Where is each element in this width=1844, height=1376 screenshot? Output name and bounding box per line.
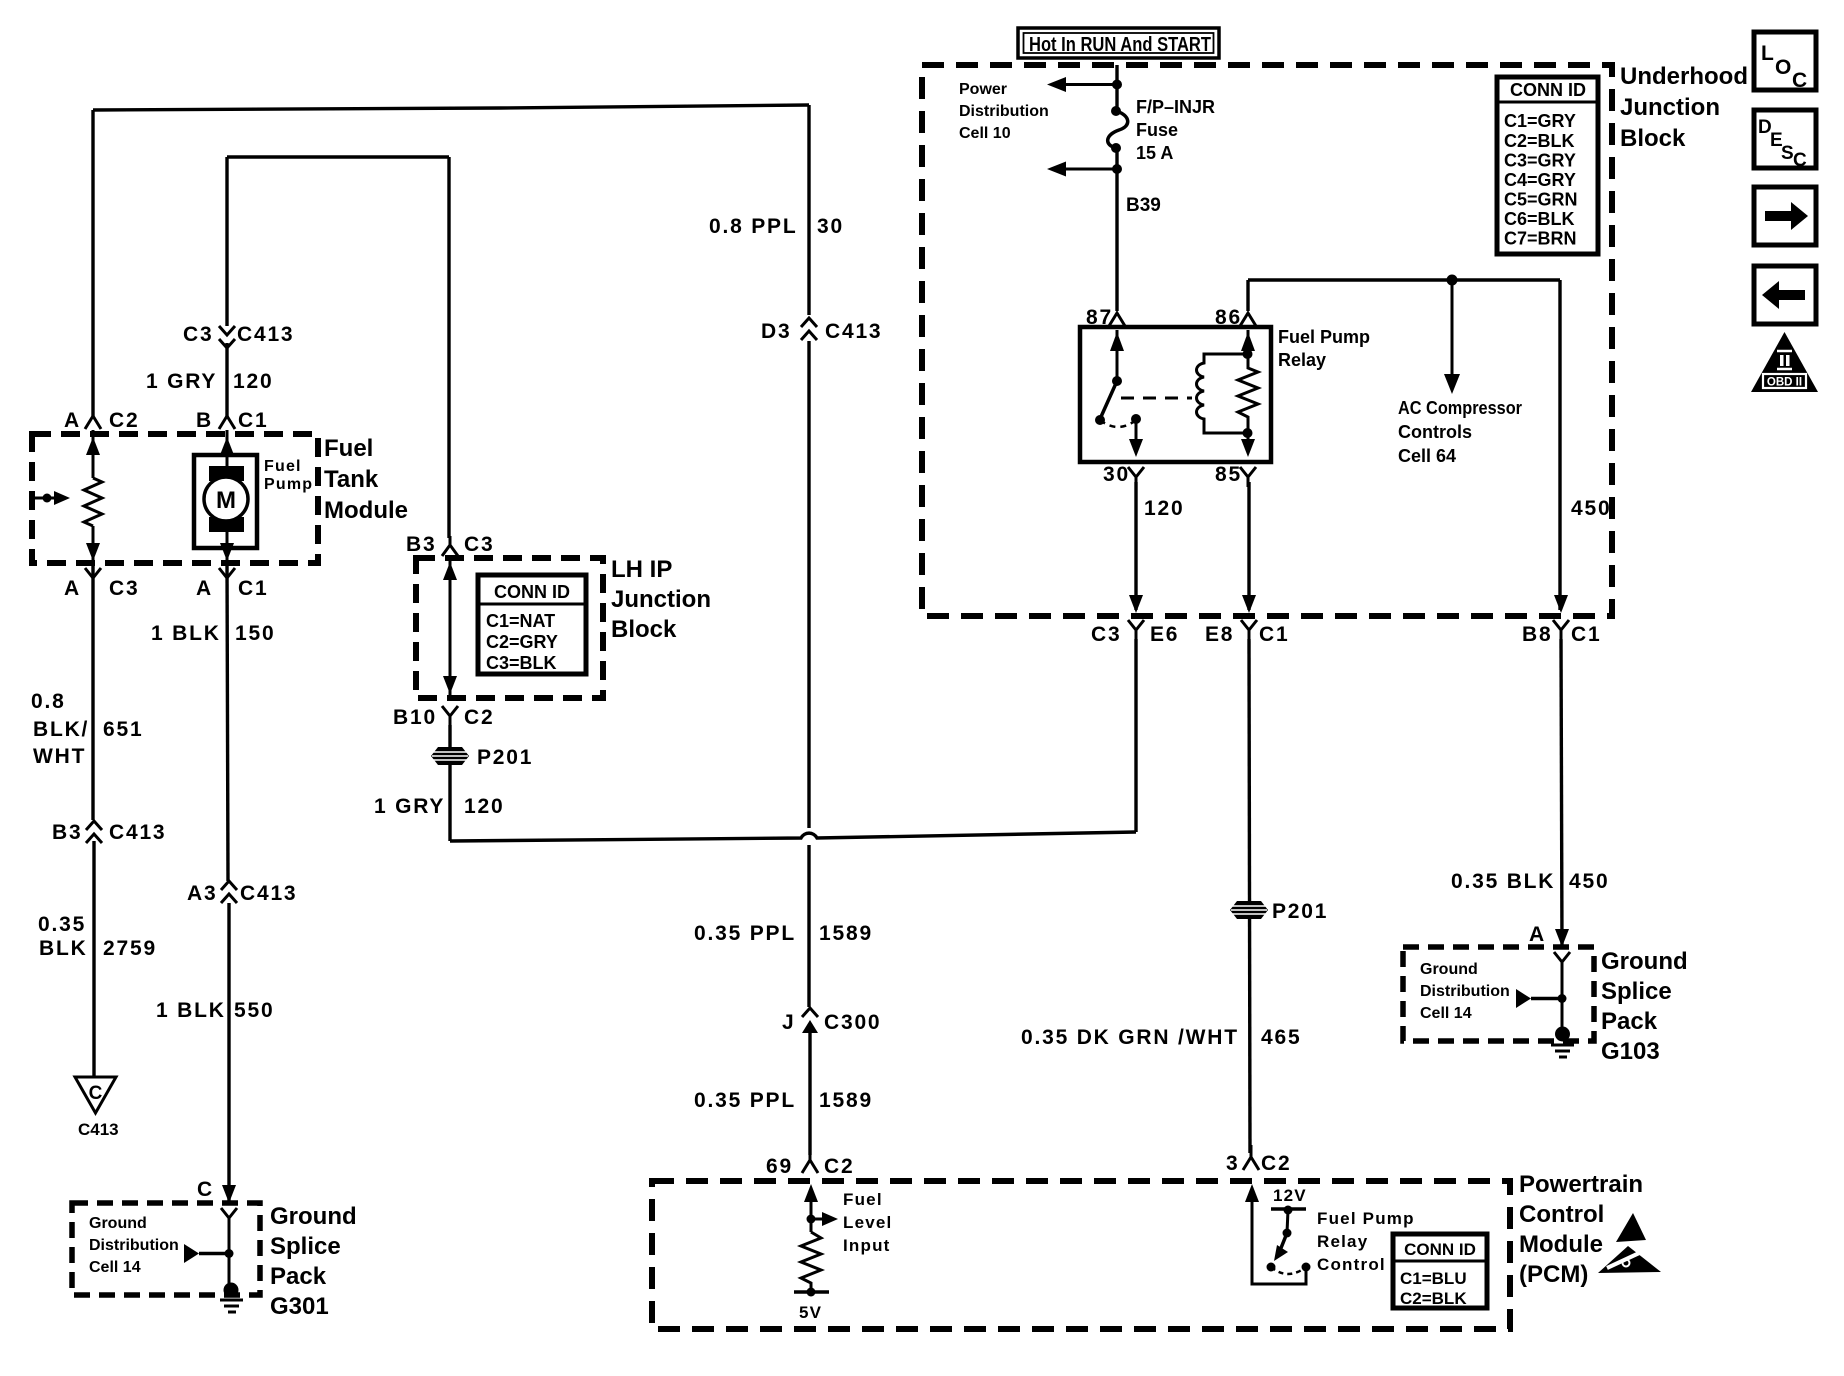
power distribution tap arrow (upper): [1047, 77, 1122, 92]
svg-text:30: 30: [1103, 463, 1130, 486]
pin A / connector C3 (module bottom left): [64, 568, 139, 600]
svg-text:C: C: [1792, 69, 1809, 92]
label: Ground Distribution Cell 14 (G301): [89, 1215, 179, 1276]
svg-text:Cell 14: Cell 14: [1420, 1005, 1472, 1022]
ESD sensitive device symbol: [1598, 1213, 1661, 1273]
in-line connector J C300 (PPL wire): [782, 1008, 881, 1034]
in-line connector C3 C413 (GRY wire): [183, 323, 294, 348]
fuse F/P-INJR 15 A: [1108, 106, 1128, 153]
pin B10 / connector C2 (LH IP bottom): [393, 706, 494, 729]
wire: 450 vertical x=1561 B8/C1 down to G103 pin A: [1561, 639, 1562, 947]
svg-text:A: A: [1529, 923, 1546, 946]
wire: 0.35 PPL vertical x=809 J/C300 to PCM pin 69: [808, 1032, 811, 1155]
svg-text:1 GRY: 1 GRY: [146, 370, 217, 393]
relay coil return leg: [1241, 428, 1255, 457]
wire: 1 GRY vertical x=450 B10/C2 through P201 down to corner: [448, 725, 451, 841]
svg-text:C: C: [1793, 150, 1807, 171]
svg-text:B: B: [196, 409, 213, 432]
PCM driver switch arm: [1274, 1210, 1292, 1261]
svg-text:C413: C413: [825, 320, 882, 343]
connector chevron at G103 edge: [1554, 952, 1570, 972]
fuel level sender variable resistor: [84, 478, 102, 526]
svg-text:Level: Level: [843, 1213, 892, 1232]
wire: 0.8 PPL vertical x=809 to D3/C413: [807, 105, 810, 315]
svg-text:Block: Block: [611, 616, 677, 643]
svg-text:2759: 2759: [103, 937, 157, 960]
wire: sender resistor to module bottom edge: [92, 526, 95, 560]
svg-text:0.35 DK GRN /WHT: 0.35 DK GRN /WHT: [1021, 1026, 1239, 1049]
svg-text:0.35 PPL: 0.35 PPL: [694, 1089, 796, 1112]
label: Underhood Junction Block: [1620, 63, 1748, 152]
svg-text:Cell 10: Cell 10: [959, 125, 1011, 142]
arrowhead: AC compressor tap pointing down: [1444, 374, 1460, 394]
wire: 0.35 PPL vertical x=809 D3/C413 down to crossover: [807, 341, 810, 828]
svg-text:BLK: BLK: [39, 937, 88, 960]
svg-text:B3: B3: [52, 821, 82, 844]
svg-text:Pack: Pack: [1601, 1008, 1658, 1035]
wire: AC compressor tap vertical arrow x=1452: [1451, 280, 1454, 378]
svg-text:C3: C3: [183, 323, 213, 346]
svg-text:P201: P201: [477, 746, 533, 769]
svg-text:120: 120: [464, 795, 504, 818]
svg-text:AC Compressor: AC Compressor: [1398, 398, 1522, 418]
CONN ID table (LH IP): [478, 575, 586, 674]
svg-text:Fuel Pump: Fuel Pump: [1317, 1209, 1415, 1228]
svg-text:1 BLK: 1 BLK: [156, 999, 226, 1022]
arrowhead: down out of fuel pump motor: [220, 543, 234, 561]
svg-text:CONN ID: CONN ID: [494, 582, 570, 602]
label: Ground Distribution Cell 14 (G103): [1420, 961, 1510, 1022]
wire: 1 GRY top horizontal run: [227, 155, 449, 158]
svg-text:CONN ID: CONN ID: [1510, 80, 1586, 100]
svg-text:O: O: [1775, 56, 1793, 79]
svg-text:Underhood: Underhood: [1620, 63, 1748, 90]
label: LH IP Junction Block: [611, 556, 711, 643]
svg-text:Controls: Controls: [1398, 422, 1472, 442]
svg-text:Fuse: Fuse: [1136, 120, 1178, 140]
in-line connector P201 (GRY wire): [431, 746, 533, 769]
svg-text:Control: Control: [1519, 1201, 1604, 1228]
PCM pull-up resistor: [801, 1232, 821, 1292]
svg-text:C2: C2: [109, 409, 139, 432]
svg-text:C413: C413: [240, 882, 297, 905]
svg-text:1589: 1589: [819, 1089, 873, 1112]
label: 1 GRY 120 (below P201): [374, 795, 504, 818]
wire: fuse feed vertical x=1117 from UJB top edge: [1115, 65, 1118, 109]
svg-text:G301: G301: [270, 1293, 329, 1320]
PCM driver switch 12V feed: [1271, 1206, 1306, 1215]
svg-text:C7=BRN: C7=BRN: [1504, 229, 1577, 249]
label: 1 BLK 150: [151, 622, 275, 645]
svg-text:WHT: WHT: [33, 745, 86, 768]
ground splice pack G103 dashed enclosure: [1403, 947, 1594, 1041]
svg-text:12V: 12V: [1273, 1186, 1307, 1205]
label: F/P-INJR Fuse 15 A: [1136, 97, 1215, 163]
arrowhead: down out of sender resistor: [86, 543, 100, 561]
svg-text:30: 30: [817, 215, 844, 238]
svg-text:Splice: Splice: [1601, 978, 1672, 1005]
svg-text:Relay: Relay: [1317, 1232, 1368, 1251]
svg-text:5V: 5V: [799, 1303, 822, 1322]
wire: through LH IP junction block: [449, 558, 452, 695]
wire: fuel pump motor to module bottom edge: [226, 532, 229, 560]
in-line connector D3 C413 (PPL wire): [761, 318, 882, 343]
svg-text:Junction: Junction: [611, 586, 711, 613]
label: B39: [1126, 195, 1161, 216]
wire: left vertical x=93 B3/C413 to C413 triangle: [92, 841, 95, 1077]
LH IP junction block dashed enclosure: [416, 558, 603, 698]
svg-text:0.35 PPL: 0.35 PPL: [694, 922, 796, 945]
svg-text:Fuel: Fuel: [843, 1190, 883, 1209]
wire: G103 splice vertical: [1561, 972, 1564, 1028]
svg-text:85: 85: [1215, 463, 1242, 486]
wire: 120 vertical x=1136 relay pin 30 to UJB bottom edge: [1134, 482, 1137, 610]
svg-text:C6=BLK: C6=BLK: [1504, 209, 1575, 229]
label: Ground Splice Pack G301: [270, 1203, 357, 1320]
junction dot: coil feed run at AC compressor tap: [1447, 275, 1458, 286]
svg-text:Pack: Pack: [270, 1263, 327, 1290]
wire: G301 splice vertical: [228, 1228, 231, 1284]
svg-text:550: 550: [234, 999, 274, 1022]
5V reference terminal: [794, 1288, 829, 1323]
svg-text:Junction: Junction: [1620, 94, 1720, 121]
svg-text:15 A: 15 A: [1136, 143, 1173, 163]
powertrain control module dashed enclosure: [652, 1181, 1510, 1329]
svg-text:C413: C413: [78, 1120, 119, 1139]
wire: vertical x=227 from GRY run to C3/C413: [225, 157, 228, 326]
label: Powertrain Control Module (PCM): [1519, 1171, 1643, 1288]
arrowhead: down into G103: [1555, 929, 1569, 947]
wire: sender resistor feed inside module: [92, 430, 95, 478]
label: AC Compressor Controls Cell 64: [1398, 398, 1522, 466]
svg-text:465: 465: [1261, 1026, 1301, 1049]
svg-text:450: 450: [1569, 870, 1609, 893]
svg-text:Ground: Ground: [89, 1215, 147, 1232]
svg-text:0.35 BLK: 0.35 BLK: [1451, 870, 1555, 893]
svg-text:Cell 14: Cell 14: [89, 1259, 141, 1276]
pin B3 / connector C3 (LH IP top): [406, 533, 494, 556]
wire: 1 GRY horizontal run y=841..832 with crossover hop at x=809: [450, 832, 1136, 841]
svg-text:B8: B8: [1522, 623, 1552, 646]
svg-text:BLK/: BLK/: [33, 718, 89, 741]
svg-text:1 BLK: 1 BLK: [151, 622, 221, 645]
relay coil suppression resistor (right branch): [1238, 354, 1258, 433]
svg-text:Hot In RUN And START: Hot In RUN And START: [1029, 34, 1211, 56]
pin 69 / connector C2 (PCM): [766, 1148, 854, 1178]
label: 1 GRY 120: [146, 370, 273, 393]
svg-text:Power: Power: [959, 81, 1007, 98]
label: 0.35 PPL 1589 (upper): [694, 922, 873, 945]
label: Fuel Pump Relay: [1278, 327, 1370, 370]
relay coil (left branch): [1197, 354, 1248, 433]
svg-text:F/P–INJR: F/P–INJR: [1136, 97, 1215, 117]
arrowhead: up into fuel pump motor: [220, 437, 234, 455]
svg-text:E6: E6: [1150, 623, 1179, 646]
underhood junction block dashed enclosure: [922, 65, 1612, 616]
label: Fuel Pump (inside module): [264, 458, 313, 493]
relay pin 85: [1215, 463, 1256, 487]
svg-text:B3: B3: [406, 533, 436, 556]
wire: 0.8 PPL top horizontal run: [93, 105, 809, 110]
pin C at G301: [197, 1178, 214, 1201]
fuel pump motor M: [194, 455, 257, 548]
svg-text:C1: C1: [238, 409, 268, 432]
arrowhead: up into sender resistor: [86, 437, 100, 455]
svg-text:C3=BLK: C3=BLK: [486, 653, 557, 673]
wire: 0.35 PPL vertical x=809 crossover to J/C300: [807, 845, 810, 1007]
label: 0.8 BLK/WHT 651: [31, 690, 143, 768]
svg-text:E8: E8: [1205, 623, 1234, 646]
svg-text:(PCM): (PCM): [1519, 1261, 1588, 1288]
svg-text:L: L: [1761, 42, 1776, 65]
UJB exit pin E8 / C1: [1205, 595, 1289, 646]
svg-text:LH IP: LH IP: [611, 556, 672, 583]
svg-text:C3: C3: [109, 577, 139, 600]
pin A / connector C1 (module bottom right): [196, 568, 268, 600]
svg-text:69: 69: [766, 1155, 793, 1178]
svg-text:Input: Input: [843, 1236, 891, 1255]
svg-text:Splice: Splice: [270, 1233, 341, 1260]
svg-text:Block: Block: [1620, 125, 1686, 152]
svg-text:C: C: [89, 1083, 103, 1104]
wire: vertical x=227 C3/C413 to B/C1: [225, 343, 228, 417]
pin A at G103: [1529, 923, 1546, 946]
ground symbol G103: [1551, 1027, 1574, 1058]
ground splice pack G301 dashed enclosure: [72, 1203, 260, 1295]
svg-text:Relay: Relay: [1278, 350, 1326, 370]
svg-text:OBD II: OBD II: [1767, 377, 1802, 389]
icon: DESC button: [1754, 110, 1816, 171]
svg-text:0.8 PPL: 0.8 PPL: [709, 215, 797, 238]
svg-text:C3: C3: [1091, 623, 1121, 646]
connector C413 terminal triangle: [75, 1077, 119, 1139]
label: 0.35 BLK 2759: [38, 913, 157, 960]
PCM driver switch contacts and dashed throw: [1267, 1263, 1311, 1275]
sender wiper arrow with junction dot: [33, 491, 70, 505]
relay switch output leg: [1129, 414, 1143, 457]
power source tag: Hot In RUN And START: [1018, 28, 1219, 58]
svg-text:P201: P201: [1272, 900, 1328, 923]
svg-text:Pump: Pump: [264, 476, 313, 493]
fuel tank module dashed enclosure: [32, 434, 318, 563]
wire: 465 vertical x=1249 relay pin 85 to UJB bottom edge: [1247, 482, 1250, 610]
svg-text:C3: C3: [464, 533, 494, 556]
label: 1 BLK 550: [156, 999, 274, 1022]
relay switch dashed throw arc: [1100, 420, 1136, 427]
svg-text:A3: A3: [187, 882, 217, 905]
svg-text:C4=GRY: C4=GRY: [1504, 170, 1576, 190]
label: 0.8 PPL 30: [709, 215, 844, 238]
svg-text:Ground: Ground: [1420, 961, 1478, 978]
wire: vertical x=229 A3/C413 down to G301: [227, 903, 230, 1203]
label: 0.35 PPL 1589 (lower): [694, 1089, 873, 1112]
svg-text:Distribution: Distribution: [959, 103, 1049, 120]
svg-text:Fuel: Fuel: [324, 435, 373, 462]
label: circuit 120 (relay 30 output): [1144, 497, 1184, 520]
in-line connector P201 (DK GRN wire): [1230, 900, 1328, 923]
svg-text:450: 450: [1571, 497, 1611, 520]
svg-text:0.8: 0.8: [31, 690, 66, 713]
fuel level input tap arrow: [807, 1212, 839, 1226]
icon: LOC button: [1754, 32, 1816, 92]
relay switch common leg: [1110, 330, 1124, 386]
label: Fuel Pump Relay Control: [1317, 1209, 1415, 1274]
svg-text:120: 120: [233, 370, 273, 393]
pin A / connector C2 (module top left): [64, 409, 139, 432]
svg-text:C1=NAT: C1=NAT: [486, 611, 555, 631]
relay pin 30: [1103, 463, 1144, 487]
svg-text:C1: C1: [238, 577, 268, 600]
wire: vertical x=1136 C3/E6 down to GRY horizontal run: [1134, 639, 1137, 832]
cell-14 feed arrow into G103 splice: [1516, 989, 1567, 1008]
svg-text:C413: C413: [237, 323, 294, 346]
wire: left vertical x=93 below fuel tank module to B3/C413: [91, 563, 94, 820]
wire: 0.35 DK GRN/WHT vertical x=1249 E8/C1 through P201 to PCM pin 3: [1249, 639, 1250, 1153]
svg-text:D3: D3: [761, 320, 791, 343]
svg-text:1 GRY: 1 GRY: [374, 795, 445, 818]
label: Fuel Tank Module: [324, 435, 408, 524]
relay actuation dashed link: [1121, 397, 1192, 400]
label: Ground Splice Pack G103: [1601, 948, 1688, 1065]
svg-text:Fuel Pump: Fuel Pump: [1278, 327, 1370, 347]
svg-text:Distribution: Distribution: [89, 1237, 179, 1254]
UJB exit pin C3 / E6: [1091, 595, 1179, 646]
svg-text:Ground: Ground: [1601, 948, 1688, 975]
pin B / connector C1 (module top right): [196, 409, 268, 432]
relay coil feed leg: [1241, 330, 1255, 359]
in-line connector B3 C413 (BLK/WHT wire): [52, 821, 166, 844]
svg-text:150: 150: [235, 622, 275, 645]
svg-text:B39: B39: [1126, 195, 1161, 216]
connector chevron at G301 edge: [221, 1208, 237, 1228]
label: 0.35 DK GRN /WHT 465: [1021, 1026, 1301, 1049]
ground symbol G301: [220, 1283, 243, 1313]
wire: B39 vertical x=1117 fuse to relay pin 87: [1115, 145, 1118, 311]
label: Power Distribution Cell 10: [959, 81, 1049, 142]
svg-text:C1=GRY: C1=GRY: [1504, 111, 1576, 131]
fuel pump relay box: [1080, 327, 1271, 462]
svg-text:Powertrain: Powertrain: [1519, 1171, 1643, 1198]
svg-text:0.35: 0.35: [38, 913, 86, 936]
svg-text:C1: C1: [1571, 623, 1601, 646]
svg-text:A: A: [64, 409, 81, 432]
svg-text:M: M: [216, 487, 236, 514]
relay switch arm: [1095, 381, 1117, 425]
svg-text:A: A: [64, 577, 81, 600]
svg-text:Fuel: Fuel: [264, 458, 302, 475]
svg-text:C2: C2: [824, 1155, 854, 1178]
label: Fuel Level Input: [843, 1190, 892, 1255]
svg-text:C2: C2: [464, 706, 494, 729]
svg-text:C413: C413: [109, 821, 166, 844]
svg-text:G103: G103: [1601, 1038, 1660, 1065]
wire: vertical x=228 below module to A3/C413: [227, 563, 228, 881]
svg-text:C2: C2: [1261, 1152, 1291, 1175]
svg-text:C5=GRN: C5=GRN: [1504, 190, 1578, 210]
relay pin 86: [1215, 306, 1256, 329]
svg-text:CONN ID: CONN ID: [1404, 1240, 1476, 1259]
power distribution tap arrow (lower): [1047, 162, 1122, 177]
label: circuit 450 (coil feed drop): [1571, 497, 1611, 520]
svg-text:C1: C1: [1259, 623, 1289, 646]
svg-text:Module: Module: [1519, 1231, 1603, 1258]
arrowhead: down at LH IP bottom: [443, 676, 457, 694]
wire: 1 GRY vertical x=449 top run down to LH IP block B3/C3: [447, 157, 450, 538]
svg-text:Module: Module: [324, 497, 408, 524]
svg-text:120: 120: [1144, 497, 1184, 520]
svg-text:J: J: [782, 1011, 795, 1034]
svg-text:C3=GRY: C3=GRY: [1504, 151, 1576, 171]
svg-text:Cell 64: Cell 64: [1398, 446, 1456, 466]
svg-text:C2=BLK: C2=BLK: [1504, 131, 1575, 151]
cell-14 feed arrow into G301 splice: [184, 1244, 234, 1263]
svg-text:C1=BLU: C1=BLU: [1400, 1269, 1467, 1288]
svg-text:S: S: [1781, 143, 1794, 164]
CONN ID table (PCM): [1393, 1234, 1487, 1308]
wire: 450 vertical x=1560 down to B8/C1: [1558, 280, 1561, 610]
svg-text:1589: 1589: [819, 922, 873, 945]
svg-text:651: 651: [103, 718, 143, 741]
svg-text:B10: B10: [393, 706, 437, 729]
svg-text:C: C: [197, 1178, 214, 1201]
relay pin 87: [1086, 306, 1125, 329]
svg-text:Ground: Ground: [270, 1203, 357, 1230]
svg-text:Tank: Tank: [324, 466, 379, 493]
CONN ID table (underhood junction block): [1497, 77, 1598, 254]
icon: next-page arrow button: [1754, 187, 1816, 245]
arrowhead: down into G301: [222, 1185, 236, 1203]
svg-text:A: A: [196, 577, 213, 600]
in-line connector A3 C413 (BLK wire): [187, 881, 297, 905]
pin 3 / connector C2 (PCM): [1226, 1145, 1291, 1175]
svg-text:C2=GRY: C2=GRY: [486, 632, 558, 652]
wire: left vertical (sender signal) x=93: [91, 110, 94, 416]
svg-text:3: 3: [1226, 1152, 1239, 1175]
wire: coil feed horizontal run y=280: [1248, 278, 1560, 281]
UJB exit pin B8 / C1: [1522, 595, 1601, 646]
svg-text:C300: C300: [824, 1011, 881, 1034]
svg-text:C2=BLK: C2=BLK: [1400, 1289, 1467, 1308]
fuel level input leg with arrowhead up: [804, 1184, 818, 1232]
label: 0.35 BLK 450: [1451, 870, 1609, 893]
wire: relay pin 86 vertical x=1248 up to coil feed run: [1246, 280, 1249, 311]
svg-text:Control: Control: [1317, 1255, 1386, 1274]
wire: fuel pump motor feed inside module: [226, 430, 229, 467]
fuel pump relay control output leg: [1245, 1184, 1306, 1284]
icon: previous-page arrow button: [1754, 266, 1816, 324]
arrowhead: up at LH IP top: [443, 562, 457, 580]
icon: OBD II warning triangle: [1751, 332, 1818, 392]
label: 12V: [1273, 1186, 1307, 1205]
svg-text:Distribution: Distribution: [1420, 983, 1510, 1000]
